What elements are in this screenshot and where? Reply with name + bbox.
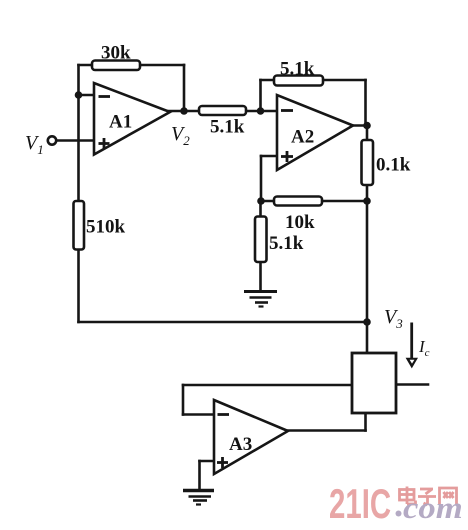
svg-text:A1: A1 bbox=[109, 112, 132, 133]
wire: A1 inverting input stub bbox=[79, 94, 95, 97]
wire: 0.1k vertical chain bbox=[366, 126, 369, 202]
wire: bottom long horizontal to V3 bbox=[79, 321, 368, 324]
wire: A1 output to A2 inverting input (through 5.1k) bbox=[168, 110, 277, 113]
wire: box right output bbox=[396, 383, 428, 386]
current arrow Ic bbox=[406, 323, 418, 369]
ground (below A3 non-inverting input) bbox=[183, 491, 214, 505]
watermark chinese char dian bbox=[400, 487, 416, 505]
svg-text:5.1k: 5.1k bbox=[280, 59, 315, 80]
wire: A3 output up to box bottom bbox=[364, 413, 367, 431]
resistor 510k bbox=[74, 201, 126, 250]
op-amp A1 bbox=[94, 83, 170, 155]
junction node at 10k left bbox=[257, 197, 265, 205]
junction node at A1 output (V2) bbox=[180, 107, 188, 115]
svg-text:0.1k: 0.1k bbox=[376, 155, 411, 176]
wire: A3 feedback vertical bbox=[182, 385, 185, 415]
resistor 0.1k bbox=[362, 140, 411, 185]
svg-text:com: com bbox=[403, 492, 463, 526]
wire: A3 non-inverting input stub bbox=[200, 460, 215, 463]
svg-text:21IC: 21IC bbox=[329, 480, 391, 528]
resistor 5.1k (to ground) bbox=[255, 217, 304, 263]
wire: 10k horizontal chain bbox=[261, 200, 368, 203]
svg-text:A2: A2 bbox=[291, 127, 314, 148]
wire: left vertical (A1 inverting node down through 510k to bottom) bbox=[77, 65, 80, 322]
wire: 30k feedback top horizontal bbox=[79, 64, 185, 67]
block (output stage box) bbox=[352, 353, 396, 413]
junction node at A1 inverting input bbox=[75, 91, 83, 99]
ground (below 5.1k) bbox=[244, 292, 277, 307]
wire: A2 feedback right vertical bbox=[364, 80, 367, 125]
junction node at 10k right bbox=[363, 197, 371, 205]
terminal V1 bbox=[25, 132, 56, 157]
svg-text:30k: 30k bbox=[101, 43, 131, 64]
svg-text:5.1k: 5.1k bbox=[210, 117, 245, 138]
resistor 10k bbox=[274, 197, 322, 234]
op-amp A3 bbox=[214, 400, 288, 474]
wire: A3 inverting input stub bbox=[183, 413, 214, 416]
wire: A2 feedback top horizontal bbox=[261, 79, 366, 82]
wire: A2 non-inverting down to 10k node bbox=[260, 156, 263, 201]
wire: V3 vertical from 0.1k node down to box bbox=[366, 201, 369, 353]
wire: A2 output stub bbox=[352, 124, 367, 127]
wire: A2 feedback left vertical bbox=[259, 80, 262, 111]
svg-text:10k: 10k bbox=[285, 212, 315, 233]
wire: A2 non-inverting input stub bbox=[261, 155, 277, 158]
wire: V1 to A1 non-inverting input bbox=[57, 139, 95, 142]
junction node at A2 output bbox=[363, 122, 371, 130]
watermark chinese char wang bbox=[440, 488, 457, 505]
svg-text:A3: A3 bbox=[229, 434, 252, 455]
watermark 21IC bbox=[329, 480, 391, 528]
resistor 5.1k (A2 feedback) bbox=[274, 59, 323, 86]
watermark chinese char zi bbox=[418, 489, 436, 505]
wire: A3 output horizontal bbox=[288, 429, 366, 432]
wire: 30k feedback right vertical bbox=[183, 65, 186, 111]
op-amp A2 bbox=[277, 95, 353, 170]
svg-text:5.1k: 5.1k bbox=[269, 233, 304, 254]
junction node V3 bbox=[363, 318, 371, 326]
watermark .com bbox=[396, 492, 463, 526]
wire: A3 non-inverting to ground bbox=[198, 461, 201, 490]
junction node at A2 inverting input bbox=[257, 107, 265, 115]
resistor 5.1k (between A1 and A2) bbox=[199, 106, 246, 138]
svg-text:510k: 510k bbox=[86, 217, 126, 238]
wire: 5.1k vertical to ground bbox=[259, 201, 262, 291]
wire: box left to A3 feedback horizontal bbox=[183, 384, 352, 387]
resistor 30k bbox=[92, 43, 140, 71]
